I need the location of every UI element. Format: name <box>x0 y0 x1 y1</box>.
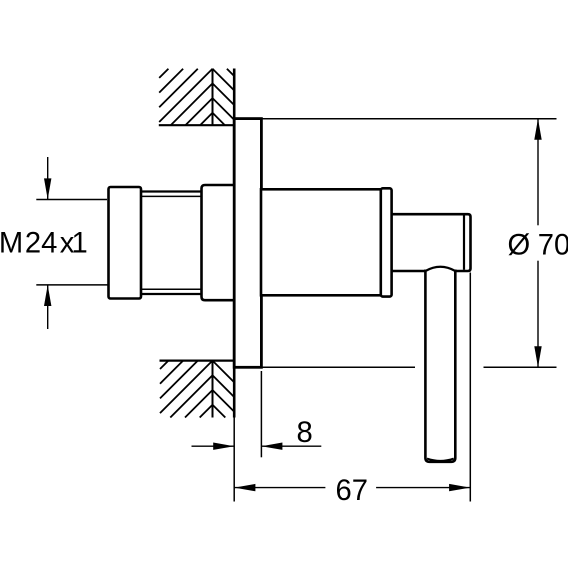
svg-text:70: 70 <box>538 230 568 262</box>
wall section bottom: hatch layer 1 (masonry, 45deg) <box>160 361 213 418</box>
wall top: layer joint line <box>212 69 214 126</box>
dimension 8: right extension line (escutcheon front face) <box>260 371 262 457</box>
svg-text:M: M <box>0 228 23 260</box>
lever tip cap line <box>427 459 454 461</box>
valve: threaded sleeve thread relief top line <box>142 195 202 197</box>
valve: left collar (back nut) <box>109 187 142 299</box>
wall section top: hatch layer 1 (masonry, 45deg) <box>159 69 212 126</box>
dimension 67: left arrowhead (left) <box>234 484 255 491</box>
valve: threaded sleeve M24x1 outer top line <box>140 190 203 192</box>
dimension M24x1: lower arrowhead (up) <box>44 285 51 306</box>
dimension M24x1: upper arrowhead (down) <box>44 178 51 199</box>
handle hub cap inner line <box>463 215 465 269</box>
wall section bottom: hatch layer 2 (plaster, reversed 45deg) <box>213 361 234 418</box>
valve main body (front housing cylinder) <box>261 189 381 295</box>
dimension D70: vertical dimension line lower segment <box>537 261 539 368</box>
svg-text:Ø: Ø <box>508 230 531 262</box>
svg-text:67: 67 <box>336 475 368 507</box>
dimension 8: left tail line <box>192 445 235 447</box>
dimension 67: right extension line (handle end) <box>469 273 471 502</box>
dimension D70: bottom extension line right part <box>484 366 557 368</box>
svg-text:24: 24 <box>25 228 57 260</box>
escutcheon plate (Ø70 wall rosette) <box>234 119 261 368</box>
dimension D70: bottom extension line left part <box>261 366 415 368</box>
svg-text:8: 8 <box>297 417 313 449</box>
valve body end ring <box>381 188 392 296</box>
wall top: hole edge (bottom border of hatch) <box>159 124 235 126</box>
dimension 67: line left segment <box>234 487 325 489</box>
handle hub (cartridge cap), top and right cap outline <box>392 214 471 271</box>
lever neck arc <box>425 267 455 271</box>
dimension 67: line right segment <box>376 487 470 489</box>
valve: threaded sleeve thread relief bottom line <box>142 288 202 290</box>
dimension D70: bottom arrowhead (down) <box>534 346 541 367</box>
dimension 8: right arrowhead (left) <box>261 443 282 450</box>
wall bottom: layer joint line <box>212 361 214 418</box>
dimension 8: left arrowhead (right) <box>213 443 234 450</box>
dimension D70: top extension line <box>261 118 557 120</box>
wall face line (finished wall surface, both sections) <box>233 69 236 418</box>
lever arm (vertical bar with rounded tip) <box>425 270 455 462</box>
dimension 8: right tail line <box>261 445 321 447</box>
dimension M24x1: upper extension line <box>36 199 107 201</box>
dimension M24x1: lower extension line <box>36 284 107 286</box>
dimension M24x1: lower leader line <box>47 285 49 329</box>
svg-text:1: 1 <box>72 228 88 260</box>
dimension 67: left extension line (wall face, below) <box>233 418 235 502</box>
valve: threaded sleeve outer bottom line <box>140 293 203 295</box>
wall section top: hatch layer 2 (plaster, reversed 45deg) <box>213 69 234 126</box>
dimension M24x1: upper leader line <box>47 157 49 200</box>
handle hub bottom-left line <box>392 270 425 273</box>
dimension D70: top arrowhead (up) <box>534 119 541 140</box>
dimension 67: right arrowhead (right) <box>449 484 470 491</box>
dimension D70: vertical dimension line upper segment <box>537 119 539 225</box>
wall bottom: hole edge (top border of hatch) <box>160 360 235 362</box>
valve: second collar (wall-side flange) <box>202 185 235 300</box>
